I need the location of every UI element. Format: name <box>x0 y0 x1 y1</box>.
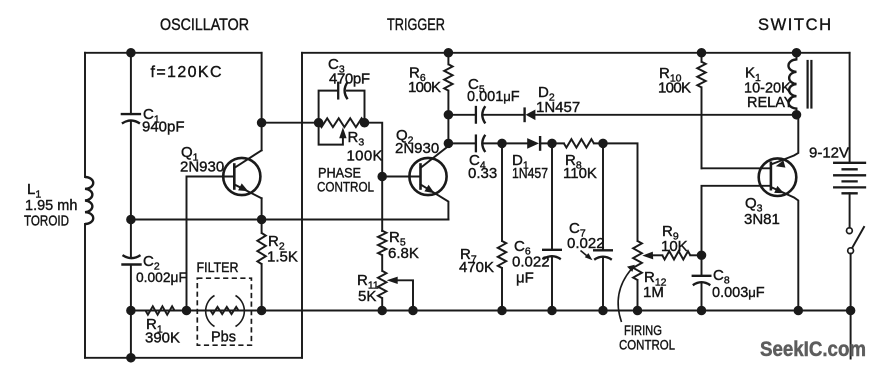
label K1 value 10-20K <box>744 81 791 97</box>
svg-text:470pF: 470pF <box>329 71 370 88</box>
label R8 <box>565 152 582 172</box>
node: C7 bottom junction <box>599 307 607 315</box>
photocell Pbs <box>206 296 245 327</box>
capacitor C4 <box>476 135 485 152</box>
capacitor C2 <box>123 255 141 264</box>
wire: trigger-section left vertical <box>301 53 303 358</box>
label Q2 <box>396 127 414 147</box>
label R7 <box>460 246 477 266</box>
capacitor C1 <box>122 114 140 123</box>
wire: R5 to R11 <box>381 255 383 271</box>
resistor R10 <box>697 53 705 169</box>
svg-text:0.002μF: 0.002μF <box>136 270 187 285</box>
svg-text:940pF: 940pF <box>142 119 185 136</box>
svg-text:C8: C8 <box>713 267 730 287</box>
arrow: R3 wiper <box>339 127 346 138</box>
wire: D1 to R8 <box>540 142 564 144</box>
svg-text:0.022: 0.022 <box>567 235 605 252</box>
svg-text:1.5K: 1.5K <box>267 249 298 266</box>
resistor R6 <box>444 53 452 115</box>
svg-text:0.33: 0.33 <box>468 165 497 182</box>
wire: C5 left lead <box>448 114 476 116</box>
wire: R6 bottom to Q2 collector node <box>447 115 449 144</box>
svg-text:SWITCH: SWITCH <box>758 16 833 34</box>
label R10 value 100K <box>658 80 691 97</box>
node: C7 top junction <box>599 140 607 148</box>
wire: R12 wiper to R9 <box>653 254 663 256</box>
label D2 <box>538 84 555 104</box>
svg-text:CONTROL: CONTROL <box>317 180 374 195</box>
wire: battery drop from top bus <box>849 53 851 163</box>
wire: Q1 collector riser <box>261 53 263 151</box>
relay coil K1 <box>788 53 796 115</box>
node: R12 bottom junction <box>634 307 642 315</box>
label Q3 type 3N81 <box>744 211 780 228</box>
label Pbs <box>211 330 236 346</box>
wire: Q3 base-2 lead and drop to R9 node <box>702 186 771 256</box>
label R2 value 1.5K <box>267 249 298 266</box>
label R1 value 390K <box>145 330 180 347</box>
label Q1 <box>181 144 199 164</box>
label section OSCILLATOR <box>160 16 249 34</box>
svg-text:110K: 110K <box>563 165 597 182</box>
label C5 <box>468 76 485 96</box>
svg-text:R3: R3 <box>348 129 365 149</box>
switch S1 (open) <box>847 227 865 254</box>
capacitor C6 <box>543 250 561 259</box>
svg-text:1N457: 1N457 <box>512 165 548 182</box>
wire: C4 left lead <box>448 142 476 144</box>
svg-text:2N930: 2N930 <box>180 159 224 176</box>
label R6 value 100K <box>408 79 441 96</box>
label R11 value 5K <box>358 288 376 305</box>
wire: C1 branch upper <box>130 53 132 114</box>
resistor R11 (potentiometer) <box>378 271 386 298</box>
wire: R2 top lead <box>261 220 263 234</box>
wire: R3 to Q2 base vertical <box>365 123 383 231</box>
label section TRIGGER <box>387 16 445 34</box>
capacitor C5 <box>476 106 485 123</box>
arrow: R11 wiper <box>387 277 398 284</box>
label C3 value 470pF <box>329 71 370 88</box>
label C8 value 0.003uF <box>712 285 765 301</box>
resistor R5 <box>378 231 386 255</box>
label FILTER <box>197 260 239 275</box>
svg-text:1M: 1M <box>643 284 664 301</box>
label K1 RELAY <box>747 95 794 111</box>
svg-text:CONTROL: CONTROL <box>619 338 675 353</box>
wire: C7 vertical <box>602 143 604 310</box>
svg-text:0.003μF: 0.003μF <box>712 285 765 301</box>
wire: left rail below L1 <box>84 224 86 358</box>
node: Q2 collector junction <box>445 140 453 148</box>
svg-text:9-12V: 9-12V <box>809 145 849 162</box>
label D1 type 1N457 <box>512 165 548 182</box>
node: Q1 emitter junction <box>258 216 266 224</box>
svg-text:390K: 390K <box>145 330 180 347</box>
svg-text:0.022: 0.022 <box>512 254 550 271</box>
label R6 <box>409 65 426 85</box>
transistor Q1 2N930 <box>223 150 261 198</box>
capacitor C8 <box>693 276 711 285</box>
wire: phase row (Q1 collector to R3) <box>262 122 319 124</box>
node: R7 bottom junction <box>498 307 506 315</box>
label R12 <box>644 269 667 289</box>
node: C8 bottom junction <box>698 307 706 315</box>
resistor R1 <box>146 306 175 314</box>
label R2 <box>268 233 285 253</box>
label C7 <box>569 220 586 240</box>
label PHASE CONTROL <box>317 166 374 195</box>
svg-text:SeekIC.com: SeekIC.com <box>760 337 866 361</box>
wire: R12 bottom lead <box>637 280 639 311</box>
wire: C6 vertical <box>551 143 553 310</box>
label C5 value 0.001uF <box>467 89 520 105</box>
label C6 value uF <box>516 270 534 287</box>
node: Q1 collector phase junction <box>258 119 266 127</box>
node: R3 right terminal <box>361 119 369 127</box>
label R12 value 1M <box>643 284 664 301</box>
label R3 <box>348 129 365 149</box>
label C2 value 0.002uF <box>136 270 187 285</box>
resistor R2 <box>257 233 265 264</box>
wire: oscillator bottom rail <box>85 357 302 359</box>
node: R7 top junction <box>498 140 506 148</box>
node: C2 / R1 row junction <box>127 307 135 315</box>
svg-text:RELAY: RELAY <box>747 95 794 111</box>
wire: C2 to bottom rail segment <box>130 265 132 358</box>
arrow: R12 wiper <box>642 252 653 260</box>
wire: D2 to relay node <box>535 114 796 116</box>
node: emitter row left junction <box>127 216 135 224</box>
label C6 <box>514 238 531 258</box>
label C2 <box>143 253 160 273</box>
wire: C5 to D2 <box>484 114 523 116</box>
resistor R3 (potentiometer) <box>319 118 365 127</box>
node: K1 top junction <box>793 49 801 57</box>
wire: main bottom bus <box>131 310 850 312</box>
arrow: firing control pointer <box>618 265 635 322</box>
resistor R7 <box>498 143 506 310</box>
svg-text:Pbs: Pbs <box>211 330 236 346</box>
label battery 9-12V <box>809 145 849 162</box>
svg-text:100K: 100K <box>408 79 441 96</box>
wire: emitter row <box>131 219 449 221</box>
svg-text:PHASE: PHASE <box>318 166 361 181</box>
node: Q3 collector bus junction <box>795 307 803 315</box>
node: C5 row junction <box>445 111 453 119</box>
wire: R2 bottom lead <box>261 264 263 311</box>
label R11 <box>357 272 379 292</box>
wire: C4 to D1 <box>484 142 527 144</box>
svg-text:0.001μF: 0.001μF <box>467 89 520 105</box>
label L1 TOROID <box>24 214 69 230</box>
svg-text:1N457: 1N457 <box>536 99 580 116</box>
node: R6 top junction <box>445 49 453 57</box>
label C4 value 0.33 <box>468 165 497 182</box>
transistor Q3 3N81 (tetrode) <box>759 115 799 311</box>
label R5 <box>389 229 406 249</box>
node: bottom rail junction at C2 branch <box>127 354 135 362</box>
node: Q2 base junction <box>378 173 386 181</box>
svg-text:2N930: 2N930 <box>395 140 439 157</box>
node: R10 top junction <box>698 49 706 57</box>
diode D1 (cathode right) <box>527 137 540 149</box>
filter dashed box <box>197 278 251 345</box>
label FIRING CONTROL <box>619 323 675 353</box>
svg-text:μF: μF <box>516 270 534 287</box>
label K1 <box>745 65 761 85</box>
svg-text:OSCILLATOR: OSCILLATOR <box>160 16 249 34</box>
svg-text:100K: 100K <box>658 80 691 97</box>
node: R2 bottom junction <box>258 307 266 315</box>
wire: R11 bottom lead <box>381 298 383 310</box>
wire: R11 wiper to bus <box>398 280 413 310</box>
capacitor C7 <box>594 250 612 259</box>
label L1 value 1.95 mh <box>25 198 77 214</box>
label R9 value 10K <box>661 238 688 255</box>
label D2 type 1N457 <box>536 99 580 116</box>
node: C6 top junction <box>548 140 556 148</box>
node: R11 wiper junction <box>409 307 417 315</box>
wire: R9 to C8 node <box>690 254 701 256</box>
capacitor C3 loop wiring <box>319 91 365 123</box>
node: C6 bottom junction <box>548 307 556 315</box>
watermark SeekIC.com <box>760 337 866 361</box>
label f=120KC <box>151 64 222 81</box>
wire: C1 to C2 segment <box>130 123 132 257</box>
label C6 value 0.022 <box>512 254 550 271</box>
label C4 <box>469 152 486 172</box>
relay K1 core <box>808 61 812 108</box>
wire: trigger top bus <box>302 52 850 54</box>
diode D2 (cathode left) <box>525 109 536 121</box>
label Q1 type 2N930 <box>180 159 224 176</box>
label C1 <box>143 106 160 126</box>
wire: battery to switch <box>849 193 851 227</box>
svg-text:TRIGGER: TRIGGER <box>387 16 445 34</box>
wire: R8 to R12 top corner <box>594 143 638 241</box>
label section SWITCH <box>758 16 833 34</box>
node: bus right end junction <box>847 307 855 315</box>
inductor L1 <box>85 177 93 224</box>
wire: R10 to Q3 base-1 lead <box>702 167 771 169</box>
label R9 <box>662 223 679 243</box>
wire: Q1 base lead <box>187 177 235 311</box>
svg-text:FILTER: FILTER <box>197 260 239 275</box>
node: R11 bottom junction <box>378 307 386 315</box>
label R10 <box>659 65 682 85</box>
label R5 value 6.8K <box>388 245 419 262</box>
wire: R3 wiper tie to left terminal <box>319 123 343 145</box>
label D1 <box>512 152 529 172</box>
node: C1 top junction <box>127 49 135 57</box>
svg-text:100K: 100K <box>347 148 383 165</box>
wire: left rail above L1 <box>84 53 86 177</box>
wire: C8 vertical <box>701 255 703 310</box>
label Q3 <box>745 195 763 215</box>
label C8 <box>713 267 730 287</box>
transistor Q2 2N930 <box>131 143 449 219</box>
wire: switch to bus <box>850 254 852 311</box>
node: R3 left terminal <box>315 119 323 127</box>
wire: R5-R11 divider vertical <box>381 230 383 232</box>
resistor R8 <box>564 139 594 147</box>
battery B1 9-12V <box>834 163 865 194</box>
label C3 <box>328 56 345 76</box>
svg-text:470K: 470K <box>459 259 494 276</box>
wire: oscillator top rail <box>85 52 262 54</box>
svg-text:f=120KC: f=120KC <box>151 64 222 81</box>
wire: Q1 emitter drop <box>261 198 263 219</box>
label R7 value 470K <box>459 259 494 276</box>
label C1 value 940pF <box>142 119 185 136</box>
label R8 value 110K <box>563 165 597 182</box>
svg-text:5K: 5K <box>358 288 376 305</box>
node: R9 / C8 junction <box>698 252 706 260</box>
label R3 value 100K <box>347 148 383 165</box>
wire: stub below bus right end <box>850 311 852 359</box>
resistor R9 <box>662 251 690 259</box>
svg-text:6.8K: 6.8K <box>388 245 419 262</box>
capacitor C3 <box>338 82 347 99</box>
svg-text:10K: 10K <box>661 238 688 255</box>
label C7 value 0.022 <box>567 235 605 252</box>
resistor R12 (potentiometer) <box>633 241 642 280</box>
arrow: C7 pointer <box>581 251 593 261</box>
svg-text:TOROID: TOROID <box>24 214 69 230</box>
node: relay bottom junction <box>793 111 801 119</box>
label L1 <box>27 181 41 201</box>
label Q2 type 2N930 <box>395 140 439 157</box>
label R1 <box>146 316 163 336</box>
svg-text:3N81: 3N81 <box>744 211 780 228</box>
svg-text:1.95 mh: 1.95 mh <box>25 198 77 214</box>
svg-text:FIRING: FIRING <box>624 323 662 338</box>
node: Q1 base divider junction on bus <box>183 307 191 315</box>
